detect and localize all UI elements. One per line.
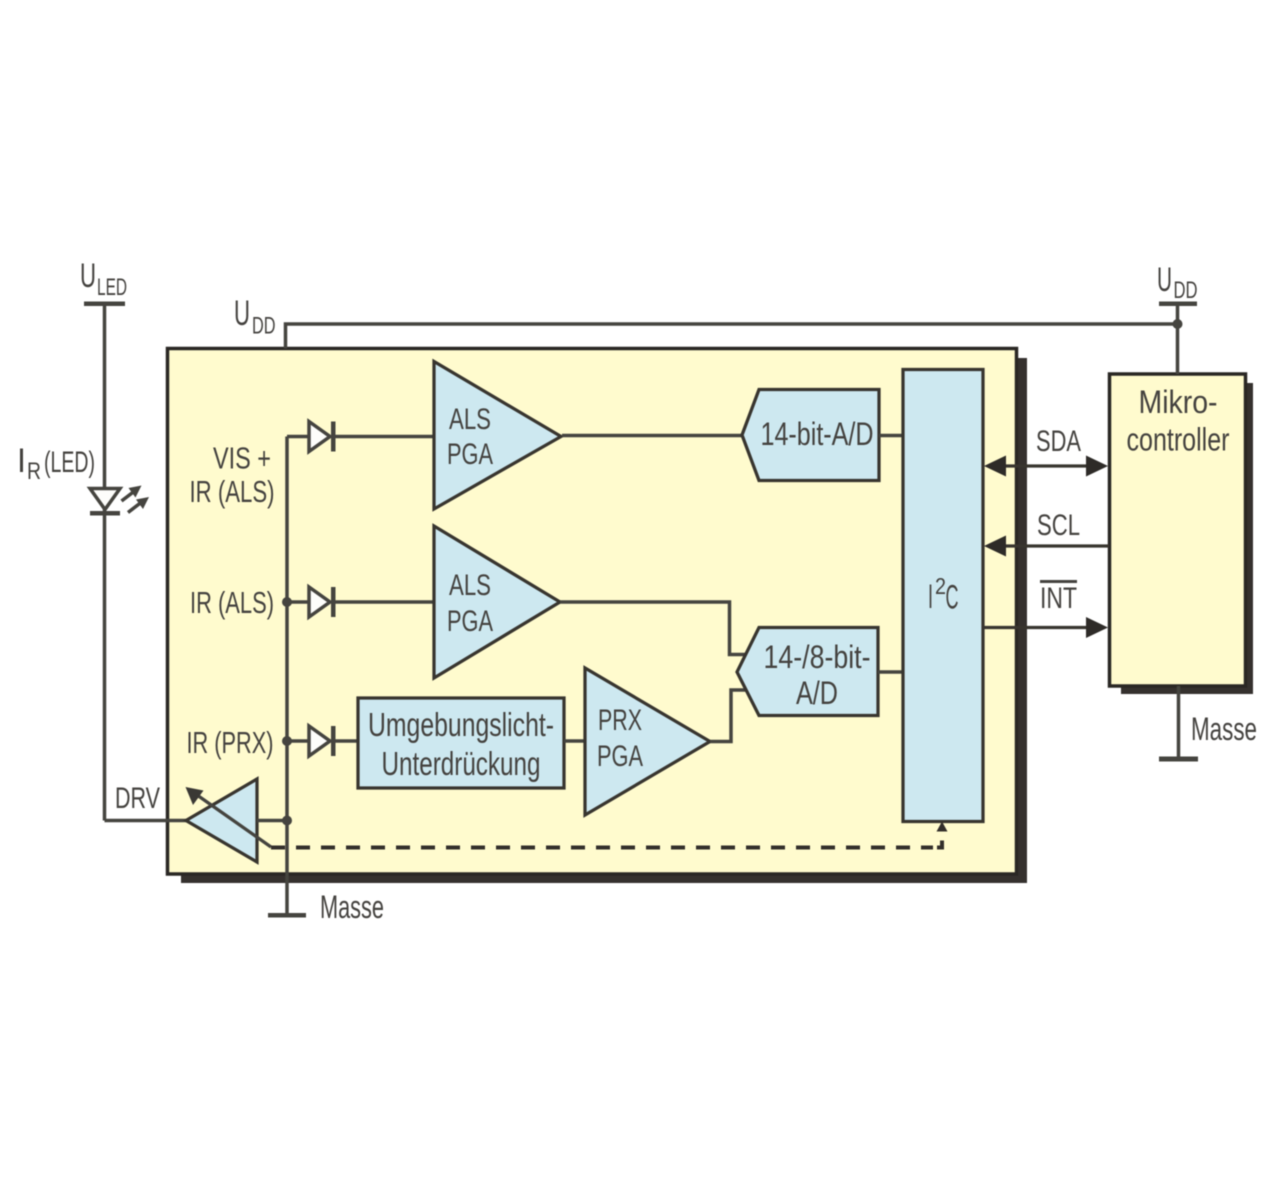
- svg-text:DD: DD: [252, 313, 276, 340]
- svg-text:U: U: [1157, 261, 1172, 299]
- wire diode to ambient light suppression: [336, 739, 359, 743]
- microcontroller U2 shadow: [1121, 383, 1253, 694]
- svg-text:PGA: PGA: [447, 438, 493, 471]
- svg-text:Masse: Masse: [320, 889, 384, 925]
- wire diode to ALS PGA 2: [336, 600, 435, 604]
- sensor IC body: [168, 349, 1017, 875]
- wire 14-bit A/D to I2C: [879, 434, 903, 438]
- node row3 junction: [282, 736, 292, 746]
- amplifier PRX PGA: [585, 668, 710, 815]
- ADC 14-/8-bit-A/D: [737, 628, 878, 716]
- svg-text:IR (PRX): IR (PRX): [187, 725, 274, 760]
- supply U_DD left label: [234, 294, 276, 340]
- svg-text:(LED): (LED): [44, 446, 95, 479]
- wire microcontroller to ground: [1177, 686, 1181, 757]
- svg-text:2: 2: [935, 573, 946, 599]
- svg-text:LED: LED: [97, 274, 127, 301]
- interface block I2C: [903, 370, 983, 822]
- svg-text:controller: controller: [1127, 422, 1230, 458]
- supply U_DD right bar: [1159, 302, 1197, 307]
- block Umgebungslicht-Unterdrueckung: [358, 698, 564, 788]
- svg-text:SDA: SDA: [1036, 425, 1081, 458]
- svg-text:U: U: [80, 257, 96, 295]
- svg-text:SCL: SCL: [1037, 509, 1080, 542]
- svg-text:Unterdrückung: Unterdrückung: [382, 745, 541, 782]
- photodiode D3: [309, 587, 336, 617]
- wire ALS PGA 1 to 14-bit A/D: [562, 434, 742, 438]
- microcontroller U2: [1110, 374, 1246, 686]
- wire U_DD to microcontroller: [1176, 306, 1180, 374]
- svg-text:Masse: Masse: [1191, 711, 1257, 747]
- wire diode to ALS PGA 1: [336, 435, 435, 439]
- wire DRV to rail: [257, 819, 287, 823]
- svg-text:14-bit-A/D: 14-bit-A/D: [761, 416, 874, 452]
- node DRV junction: [282, 816, 292, 826]
- svg-text:PRX: PRX: [598, 704, 642, 737]
- sensor IC shadow: [181, 358, 1027, 883]
- svg-text:C: C: [946, 579, 959, 617]
- svg-text:I: I: [928, 578, 933, 616]
- svg-text:PGA: PGA: [447, 605, 493, 638]
- wire gain control feedback (dashed): [271, 846, 933, 850]
- amplifier DRV driver: [186, 779, 272, 862]
- svg-text:A/D: A/D: [796, 675, 838, 711]
- wire SCL: [984, 536, 1109, 557]
- svg-text:ALS: ALS: [449, 569, 491, 602]
- wire INT: [983, 617, 1108, 638]
- svg-text:U: U: [234, 294, 250, 333]
- wire row3 input: [287, 739, 309, 743]
- wire U_LED rail: [103, 306, 107, 821]
- svg-text:DRV: DRV: [115, 782, 160, 815]
- node row2 junction: [282, 597, 292, 607]
- photodiode D4: [309, 726, 336, 756]
- wire suppression to PRX PGA: [564, 739, 585, 743]
- label VIS + IR (ALS): [190, 441, 275, 510]
- supply U_LED bar: [84, 302, 125, 307]
- svg-text:VIS +: VIS +: [213, 441, 271, 476]
- svg-text:IR (ALS): IR (ALS): [190, 474, 275, 509]
- label Mikrocontroller: [1127, 384, 1230, 458]
- svg-text:14-/8-bit-: 14-/8-bit-: [764, 639, 871, 675]
- svg-text:DD: DD: [1174, 277, 1198, 304]
- wire row2 input: [287, 600, 309, 604]
- LED D1: [90, 486, 149, 516]
- wire 14-/8-bit A/D to I2C: [878, 670, 903, 674]
- svg-text:IR (ALS): IR (ALS): [190, 585, 274, 620]
- svg-text:R: R: [27, 458, 41, 485]
- svg-text:Umgebungslicht-: Umgebungslicht-: [368, 706, 554, 743]
- wire U_DD net: [286, 324, 1178, 349]
- wire SDA (bidirectional): [984, 456, 1108, 477]
- label INT with overline: [1040, 582, 1077, 616]
- ground left (Masse): [268, 913, 306, 918]
- svg-text:I: I: [17, 442, 26, 480]
- svg-text:Mikro-: Mikro-: [1139, 384, 1218, 420]
- node common cathode rail: [285, 437, 289, 914]
- wire row1 input: [287, 435, 309, 439]
- supply U_LED label: [80, 257, 127, 301]
- svg-text:ALS: ALS: [449, 403, 491, 436]
- amplifier ALS PGA 1: [434, 362, 561, 510]
- supply U_DD right label: [1157, 261, 1198, 304]
- ground right (Masse): [1159, 757, 1198, 762]
- amplifier ALS PGA 2: [434, 526, 560, 678]
- label I_R(LED): [17, 442, 95, 485]
- photodiode D2: [309, 422, 336, 452]
- svg-text:INT: INT: [1040, 582, 1077, 615]
- wire DRV output to LED rail: [105, 819, 187, 823]
- ADC 14-bit-A/D: [742, 390, 879, 481]
- svg-text:PGA: PGA: [597, 740, 643, 773]
- node U_DD junction: [1173, 319, 1183, 329]
- wire PRX PGA to 14-/8-bit A/D: [710, 690, 752, 742]
- wire ALS PGA 2 to 14-/8-bit A/D: [560, 602, 752, 655]
